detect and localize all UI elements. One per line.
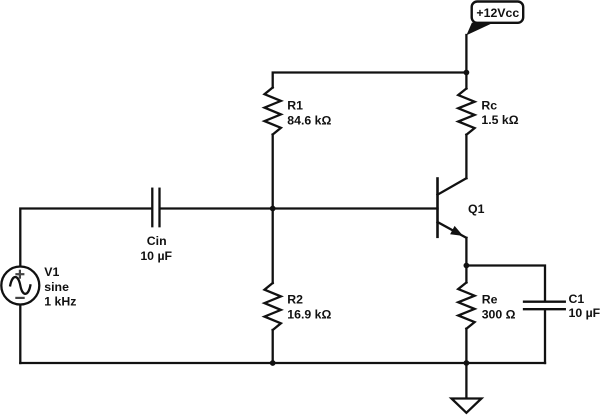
svg-text:16.9 kΩ: 16.9 kΩ: [287, 307, 331, 321]
svg-text:C1: C1: [569, 292, 585, 306]
wire: Vcc node down to Rc: [465, 73, 467, 89]
wire: emitter node down to Re: [465, 266, 467, 283]
wire: ground stem: [465, 363, 467, 399]
svg-text:R1: R1: [287, 98, 303, 112]
resistor Rc: [458, 89, 474, 135]
+12Vcc flag pointer: [466, 23, 493, 36]
svg-text:10 µF: 10 µF: [140, 249, 172, 263]
node: ground junction: [464, 360, 470, 366]
V1 plus sign: [15, 270, 24, 298]
node: Vcc junction: [464, 70, 470, 76]
node: R2 bottom junction: [270, 360, 276, 366]
svg-text:+12Vcc: +12Vcc: [476, 6, 519, 20]
wire: input top from V1 to Cin: [20, 209, 151, 267]
wire: top rail R1 to Vcc node: [273, 73, 467, 88]
svg-text:Cin: Cin: [147, 234, 167, 248]
svg-text:Rc: Rc: [481, 98, 497, 112]
V1 sine waveform: [10, 277, 30, 294]
wire: V1 bottom to bottom rail: [19, 305, 21, 364]
transistor Q1 collector stroke: [438, 178, 467, 195]
wire: Re bottom to ground rail: [465, 329, 467, 363]
svg-text:V1: V1: [44, 265, 59, 279]
capacitor Cin: [151, 189, 153, 227]
svg-text:10 µF: 10 µF: [569, 306, 600, 320]
svg-text:Q1: Q1: [468, 202, 485, 216]
wire: C1 bottom to ground rail: [544, 310, 546, 363]
svg-text:R2: R2: [287, 292, 303, 306]
wire: Rc bottom to Q1 collector: [465, 135, 467, 179]
svg-text:84.6 kΩ: 84.6 kΩ: [287, 113, 331, 127]
resistor R2: [265, 283, 281, 330]
capacitor C1: [524, 301, 565, 303]
wire: emitter node to C1 top: [466, 266, 545, 302]
svg-text:1.5 kΩ: 1.5 kΩ: [481, 113, 518, 127]
resistor R1: [265, 88, 281, 135]
wire: R1 bottom to base node: [272, 135, 274, 209]
node: base junction: [270, 206, 276, 212]
V1 minus sign: [15, 297, 24, 299]
svg-text:sine: sine: [44, 280, 69, 294]
transistor Q1 emitter arrow: [451, 227, 462, 236]
transistor Q1 emitter stroke: [438, 222, 467, 238]
svg-text:1 kHz: 1 kHz: [44, 294, 76, 308]
resistor Re: [458, 283, 474, 329]
wire: emitter to emitter node: [465, 238, 467, 266]
transistor Q1 base bar: [436, 179, 439, 237]
wire: bottom ground rail: [20, 362, 545, 364]
voltage source V1 circle: [1, 267, 39, 305]
wire: base node down to R2: [272, 209, 274, 284]
svg-text:Re: Re: [482, 293, 498, 307]
svg-text:300 Ω: 300 Ω: [482, 308, 516, 322]
ground symbol: [452, 399, 482, 413]
wire: Cin right plate to base node to Q1 base: [161, 207, 438, 209]
+12Vcc supply flag box: [472, 2, 524, 23]
wire: R2 bottom to ground rail: [272, 330, 274, 363]
node: emitter junction: [464, 263, 470, 269]
wire: Vcc flag stem: [465, 35, 467, 73]
